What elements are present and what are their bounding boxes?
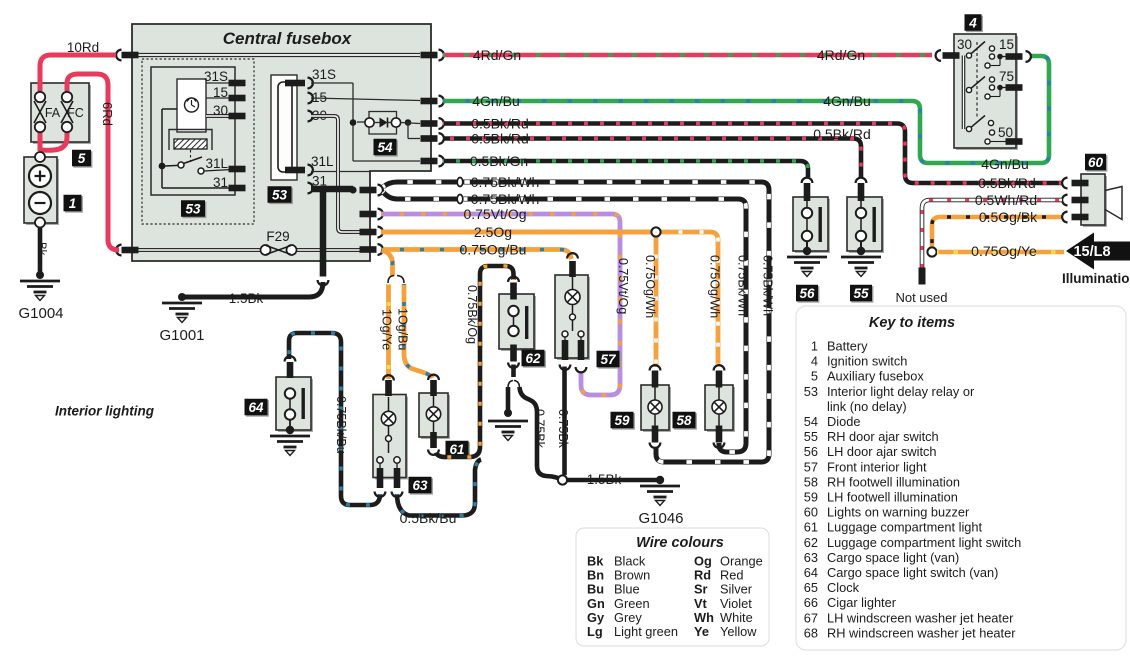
svg-text:Light green: Light green: [614, 624, 678, 639]
svg-text:0.75Bk/Wh: 0.75Bk/Wh: [471, 191, 539, 207]
svg-text:1.5Bk: 1.5Bk: [229, 291, 264, 306]
svg-text:0.75Bk/Wh: 0.75Bk/Wh: [471, 174, 539, 190]
svg-text:31L: 31L: [205, 156, 228, 171]
svg-text:62: 62: [804, 535, 818, 550]
svg-text:75: 75: [999, 69, 1014, 84]
svg-text:Silver: Silver: [720, 582, 753, 597]
svg-text:0.75Vt/Og: 0.75Vt/Og: [616, 258, 630, 314]
svg-text:Battery: Battery: [827, 339, 868, 354]
svg-text:0.75Og/Wh: 0.75Og/Wh: [643, 255, 657, 318]
svg-text:Interior light delay relay or: Interior light delay relay or: [827, 384, 975, 399]
svg-text:Sr: Sr: [694, 582, 708, 597]
svg-text:Lg: Lg: [587, 624, 603, 639]
svg-text:59: 59: [614, 413, 630, 428]
svg-text:0.75Og/Ye: 0.75Og/Ye: [971, 243, 1037, 259]
svg-text:58: 58: [676, 413, 692, 428]
svg-text:0.75Og/Bu: 0.75Og/Bu: [460, 242, 527, 258]
svg-text:Not used: Not used: [895, 290, 947, 305]
svg-text:63: 63: [412, 478, 428, 493]
svg-text:0.5Wh/Rd: 0.5Wh/Rd: [975, 192, 1037, 208]
svg-text:Bk: Bk: [35, 242, 47, 256]
svg-text:Vt: Vt: [694, 596, 708, 611]
svg-text:4Gn/Bu: 4Gn/Bu: [823, 93, 870, 109]
svg-text:4: 4: [811, 354, 818, 369]
svg-text:31S: 31S: [312, 67, 336, 82]
svg-text:G1004: G1004: [18, 305, 63, 322]
svg-text:LH windscreen washer jet heate: LH windscreen washer jet heater: [827, 610, 1014, 625]
svg-text:50: 50: [998, 125, 1013, 140]
svg-text:0.75Vt/Og: 0.75Vt/Og: [463, 206, 526, 222]
svg-text:Grey: Grey: [614, 610, 642, 625]
svg-text:0.75Bk: 0.75Bk: [556, 409, 570, 449]
svg-text:Orange: Orange: [720, 554, 763, 569]
svg-text:4Rd/Gn: 4Rd/Gn: [473, 47, 521, 63]
svg-text:Interior lighting: Interior lighting: [55, 404, 155, 419]
svg-text:64: 64: [804, 565, 818, 580]
svg-text:60: 60: [1088, 155, 1104, 170]
svg-text:Luggage compartment light swit: Luggage compartment light switch: [827, 535, 1021, 550]
svg-text:Diode: Diode: [827, 414, 860, 429]
svg-text:4Gn/Bu: 4Gn/Bu: [472, 93, 519, 109]
svg-text:0.5Og/Bk: 0.5Og/Bk: [979, 209, 1038, 225]
svg-text:4Gn/Bu: 4Gn/Bu: [981, 156, 1028, 172]
svg-text:Gn: Gn: [587, 596, 605, 611]
svg-text:0.75Bk/Wh: 0.75Bk/Wh: [736, 255, 750, 316]
svg-text:5: 5: [78, 151, 86, 166]
svg-text:30: 30: [957, 37, 972, 52]
svg-text:FA: FA: [45, 106, 61, 120]
svg-text:55: 55: [804, 429, 818, 444]
svg-text:0.5Bk/Rd: 0.5Bk/Rd: [813, 126, 871, 142]
svg-text:0.5Bk/Bu: 0.5Bk/Bu: [400, 510, 457, 526]
svg-text:Red: Red: [720, 568, 743, 583]
svg-text:0.75Bk: 0.75Bk: [533, 409, 547, 449]
svg-text:Rd: Rd: [694, 568, 711, 583]
svg-text:RH door ajar switch: RH door ajar switch: [827, 429, 939, 444]
svg-text:Og: Og: [694, 554, 712, 569]
svg-text:63: 63: [804, 550, 818, 565]
svg-text:Wire colours: Wire colours: [636, 535, 724, 551]
svg-text:Central fusebox: Central fusebox: [223, 29, 353, 48]
svg-text:1Og/Bu: 1Og/Bu: [396, 308, 410, 350]
svg-text:62: 62: [525, 351, 541, 366]
svg-text:Bk: Bk: [587, 554, 604, 569]
svg-text:Black: Black: [614, 554, 646, 569]
svg-text:0.5Bk/Rd: 0.5Bk/Rd: [978, 175, 1036, 191]
svg-text:31S: 31S: [204, 69, 228, 84]
svg-text:0.75Bk/Bu: 0.75Bk/Bu: [334, 396, 348, 454]
svg-text:15: 15: [999, 37, 1014, 52]
svg-text:Gy: Gy: [587, 610, 605, 625]
svg-text:4Rd/Gn: 4Rd/Gn: [817, 47, 865, 63]
svg-text:Cigar lighter: Cigar lighter: [827, 595, 897, 610]
svg-text:RH footwell illumination: RH footwell illumination: [827, 474, 960, 489]
svg-text:Ignition switch: Ignition switch: [827, 354, 907, 369]
svg-text:57: 57: [600, 352, 617, 367]
svg-text:1: 1: [811, 339, 818, 354]
svg-text:15/L8: 15/L8: [1073, 244, 1110, 260]
svg-text:56: 56: [804, 444, 818, 459]
svg-text:RH windscreen washer jet heate: RH windscreen washer jet heater: [827, 625, 1016, 640]
svg-text:61: 61: [804, 520, 818, 535]
svg-text:56: 56: [799, 286, 815, 301]
svg-text:15: 15: [213, 85, 228, 100]
svg-text:link (no delay): link (no delay): [827, 399, 907, 414]
svg-text:Illumination: Illumination: [1062, 271, 1130, 286]
svg-text:G1046: G1046: [638, 510, 683, 527]
svg-text:1Og/Ye: 1Og/Ye: [380, 309, 394, 350]
svg-text:58: 58: [804, 474, 818, 489]
svg-text:4: 4: [968, 15, 977, 30]
svg-text:Wh: Wh: [694, 610, 714, 625]
svg-text:60: 60: [804, 505, 818, 520]
svg-text:2.5Og: 2.5Og: [474, 224, 512, 240]
svg-text:57: 57: [804, 459, 818, 474]
svg-text:65: 65: [804, 580, 818, 595]
svg-text:Brown: Brown: [614, 568, 650, 583]
svg-text:0.75Og/Wh: 0.75Og/Wh: [708, 255, 722, 318]
svg-text:1.5Bk: 1.5Bk: [587, 472, 622, 487]
svg-text:Key to items: Key to items: [869, 315, 955, 331]
svg-text:55: 55: [853, 286, 869, 301]
svg-text:0.5Bk/Rd: 0.5Bk/Rd: [471, 116, 529, 132]
svg-text:0.75Bk/Wh: 0.75Bk/Wh: [761, 255, 775, 316]
svg-text:31L: 31L: [311, 154, 334, 169]
svg-text:Front interior light: Front interior light: [827, 459, 927, 474]
svg-text:10Rd: 10Rd: [67, 40, 99, 55]
svg-text:64: 64: [248, 400, 264, 415]
svg-text:Clock: Clock: [827, 580, 860, 595]
svg-text:0.5Bk/Gn: 0.5Bk/Gn: [470, 153, 528, 169]
svg-text:LH footwell illumination: LH footwell illumination: [827, 490, 958, 505]
svg-text:Cargo space light switch (van): Cargo space light switch (van): [827, 565, 998, 580]
svg-text:54: 54: [377, 140, 393, 155]
svg-text:53: 53: [804, 384, 818, 399]
svg-text:Violet: Violet: [720, 596, 752, 611]
svg-text:Lights on warning buzzer: Lights on warning buzzer: [827, 505, 970, 520]
svg-text:66: 66: [804, 595, 818, 610]
svg-text:Yellow: Yellow: [720, 624, 757, 639]
svg-text:Cargo space light (van): Cargo space light (van): [827, 550, 959, 565]
svg-text:61: 61: [449, 442, 464, 457]
svg-text:Luggage compartment light: Luggage compartment light: [827, 520, 983, 535]
svg-text:Bn: Bn: [587, 568, 604, 583]
svg-text:Green: Green: [614, 596, 650, 611]
svg-text:31: 31: [213, 175, 228, 190]
svg-text:1: 1: [69, 196, 77, 211]
svg-text:67: 67: [804, 610, 818, 625]
svg-text:6Rd: 6Rd: [100, 102, 115, 126]
svg-text:Ye: Ye: [694, 624, 709, 639]
svg-text:Blue: Blue: [614, 582, 640, 597]
svg-text:30: 30: [213, 103, 228, 118]
svg-text:White: White: [720, 610, 753, 625]
svg-text:F29: F29: [266, 229, 289, 244]
svg-text:FC: FC: [67, 106, 84, 120]
svg-text:LH door ajar switch: LH door ajar switch: [827, 444, 937, 459]
svg-text:G1001: G1001: [159, 327, 204, 344]
svg-text:53: 53: [272, 187, 288, 202]
svg-text:59: 59: [804, 490, 818, 505]
svg-text:68: 68: [804, 625, 818, 640]
svg-text:0.5Bk/Rd: 0.5Bk/Rd: [471, 131, 529, 147]
svg-text:0.75Bk/Og: 0.75Bk/Og: [465, 285, 479, 344]
svg-text:54: 54: [804, 414, 818, 429]
svg-text:Bu: Bu: [587, 582, 604, 597]
svg-text:53: 53: [185, 201, 201, 216]
svg-text:5: 5: [811, 369, 818, 384]
svg-text:Auxiliary fusebox: Auxiliary fusebox: [827, 369, 924, 384]
